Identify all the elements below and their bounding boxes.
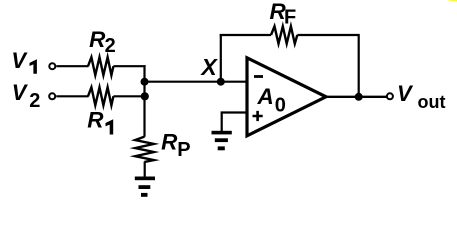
terminal V1 — [49, 63, 55, 69]
svg-text:V: V — [12, 80, 29, 105]
resistor RF — [271, 26, 297, 43]
svg-text:V: V — [11, 48, 28, 73]
terminal Vout — [387, 93, 393, 99]
label Vout — [397, 81, 445, 112]
op-amp plus sign — [253, 111, 263, 121]
wire RF right and feedback right vertical — [297, 35, 358, 97]
svg-text:X: X — [199, 54, 218, 80]
wire RP to ground — [144, 162, 146, 178]
highlighter mark top-right — [447, 0, 457, 1]
wire R1 to junction — [113, 95, 144, 97]
wire R2 to junction — [113, 65, 145, 67]
label V2 — [12, 80, 41, 112]
label RP — [161, 130, 190, 161]
wire V2 to R1 — [56, 95, 88, 97]
op-amp A0 triangle — [247, 58, 326, 136]
wire RF left — [220, 34, 271, 36]
resistor R1 — [88, 87, 113, 105]
label R1 — [87, 107, 113, 134]
svg-text:R: R — [89, 27, 106, 52]
wire junction vertical — [143, 65, 145, 137]
wire node X row — [145, 81, 246, 83]
svg-text:out: out — [418, 92, 446, 112]
label R2 — [89, 27, 116, 57]
wire plus input — [222, 113, 246, 132]
svg-text:0: 0 — [275, 95, 286, 117]
node dot junction lower — [141, 92, 149, 100]
label RF — [270, 0, 297, 28]
label A0 — [257, 84, 286, 117]
svg-text:F: F — [284, 6, 296, 28]
label V1 — [11, 48, 37, 74]
svg-text:2: 2 — [29, 90, 40, 112]
svg-text:V: V — [397, 81, 414, 106]
svg-text:R: R — [161, 130, 178, 155]
terminal V2 — [49, 93, 55, 99]
svg-text:R: R — [87, 107, 104, 132]
node dot output — [355, 93, 363, 101]
resistor R2 — [88, 57, 113, 75]
resistor RP — [135, 137, 154, 162]
svg-text:A: A — [257, 84, 274, 109]
ground RP — [135, 177, 155, 197]
svg-text:2: 2 — [105, 35, 116, 57]
wire V1 to R2 — [56, 65, 88, 67]
svg-text:P: P — [177, 139, 190, 161]
node dot junction upper — [141, 78, 149, 86]
wire feedback left vertical — [220, 34, 222, 82]
ground op-amp plus — [212, 131, 232, 150]
wire output — [326, 96, 387, 98]
op-amp minus sign — [254, 75, 263, 78]
node dot X — [217, 78, 225, 86]
